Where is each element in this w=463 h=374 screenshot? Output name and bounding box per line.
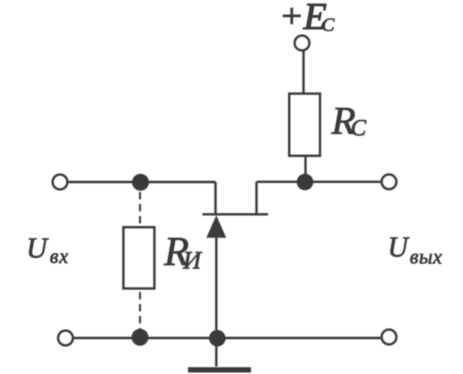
svg-text:вх: вх: [50, 246, 69, 268]
wire drain vertical: [255, 182, 257, 215]
wire top-left rail: [69, 181, 216, 183]
label +Ec: [283, 8, 301, 25]
terminal +Ec: [295, 36, 310, 51]
node bottom-left junction: [132, 329, 149, 346]
svg-text:U: U: [26, 232, 49, 264]
node gate junction: [132, 174, 149, 191]
transistor VT1 arrow: [206, 215, 226, 238]
ground: [188, 367, 251, 372]
svg-text:вых: вых: [410, 247, 443, 269]
wire Ec terminal to Rc: [302, 51, 304, 94]
resistor Rc: [289, 94, 320, 156]
node drain junction: [297, 174, 314, 191]
wire gate vertical: [214, 182, 216, 214]
wire dashed upper (node to Ri): [139, 192, 141, 227]
node bottom-source junction: [209, 330, 226, 347]
wire source vertical: [215, 236, 217, 367]
svg-text:C: C: [322, 15, 335, 36]
terminal input top: [53, 175, 68, 190]
svg-text:U: U: [388, 233, 410, 264]
terminal output bottom: [382, 330, 397, 345]
wire dashed lower (Ri to bottom rail): [139, 292, 141, 330]
transistor VT1 channel bar: [203, 213, 269, 215]
resistor Ri: [123, 227, 154, 288]
svg-text:И: И: [182, 248, 203, 275]
svg-text:C: C: [351, 115, 367, 140]
terminal input bottom: [58, 331, 73, 346]
terminal output top: [382, 174, 397, 189]
wire drain horizontal to output: [257, 181, 381, 183]
wire bottom rail: [74, 337, 381, 339]
wire Rc to drain node: [304, 156, 306, 182]
